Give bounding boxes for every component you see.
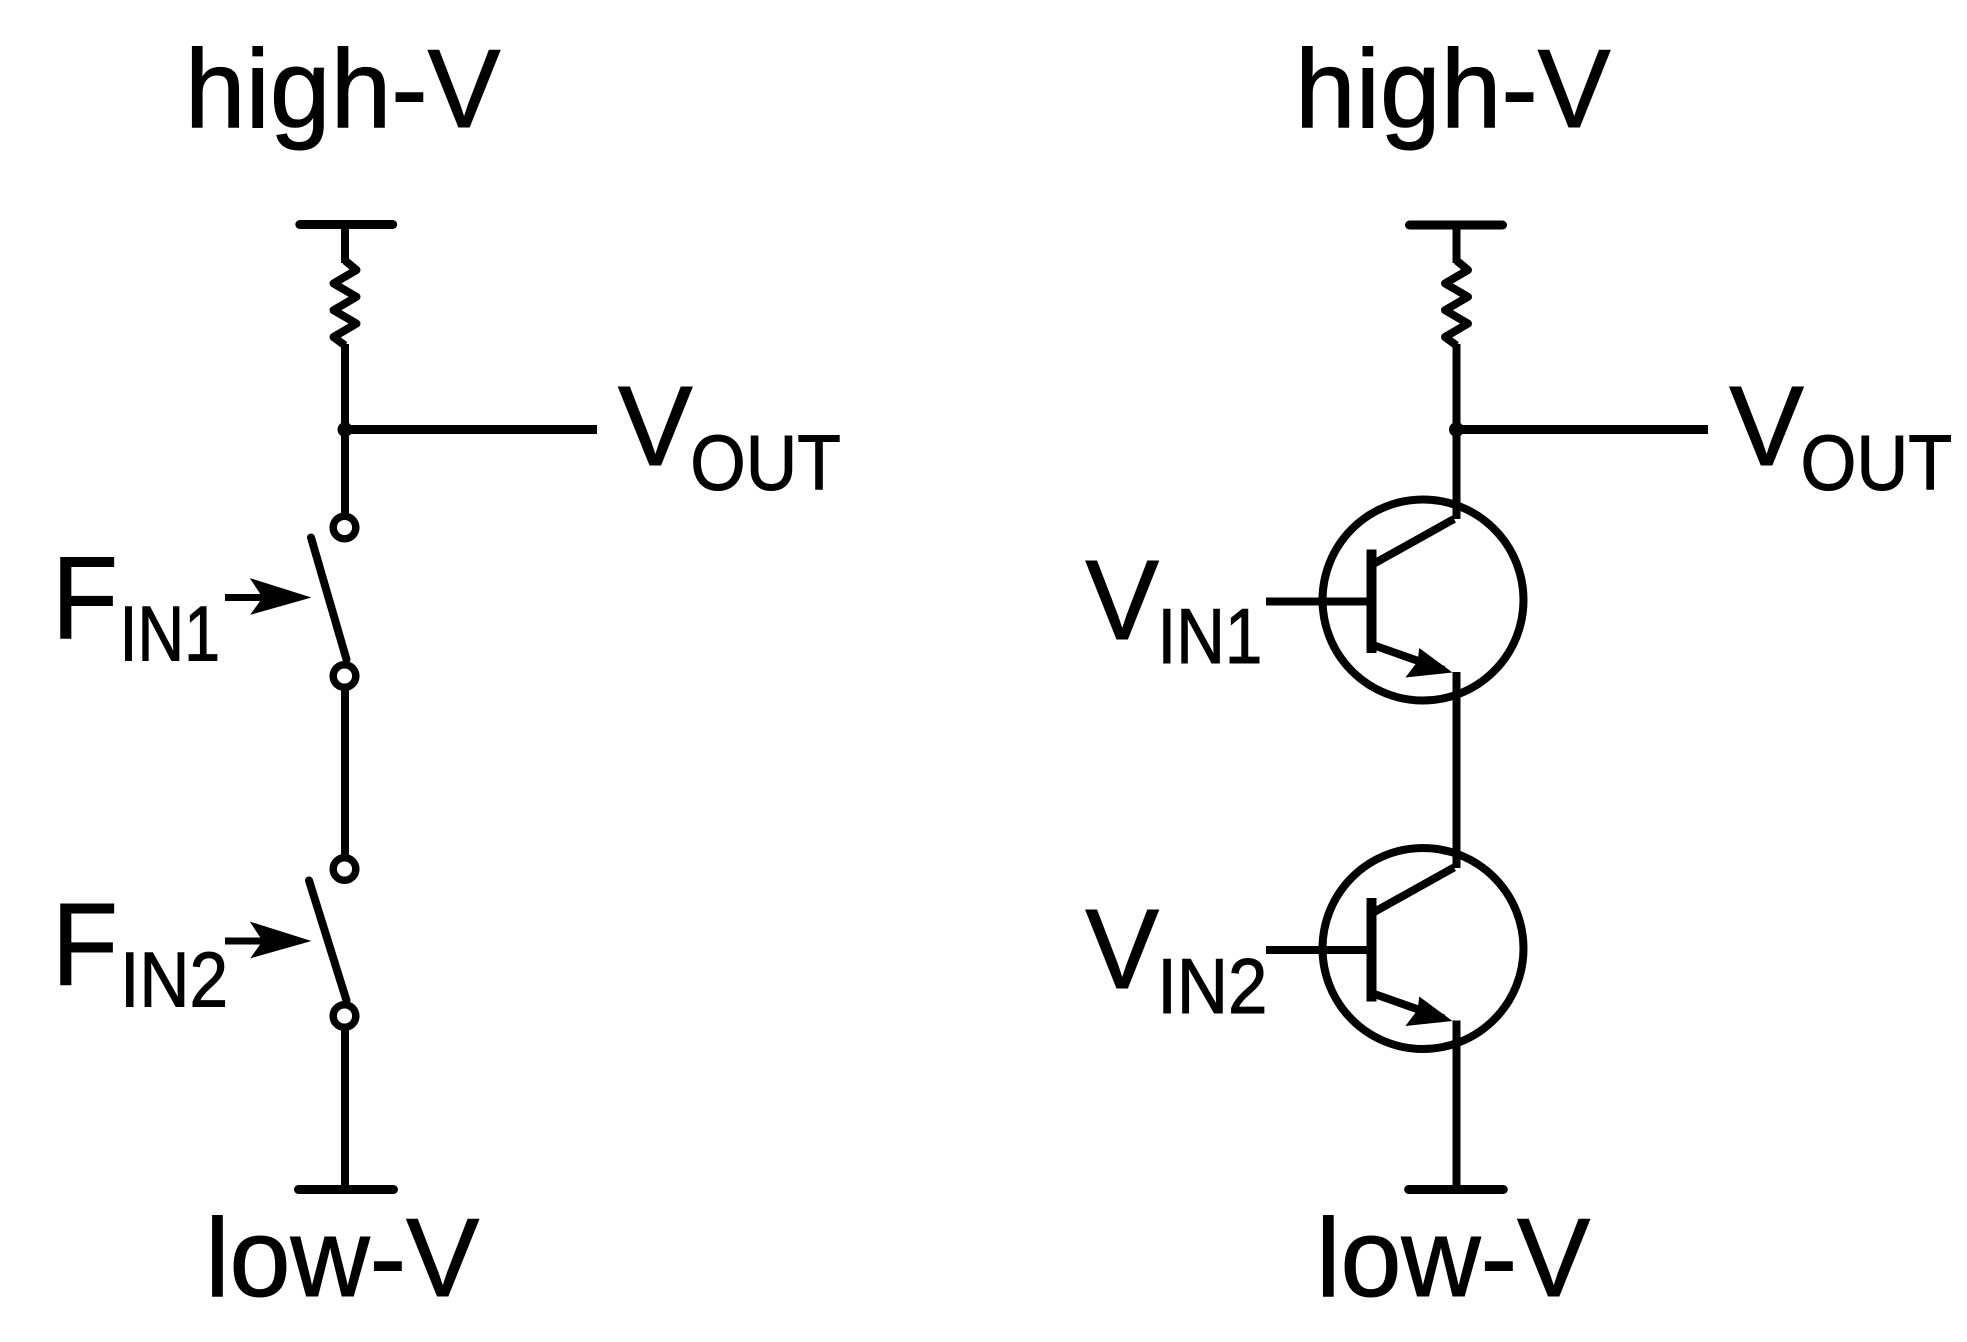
svg-text:V: V: [1085, 537, 1159, 663]
arrow F_IN2 to S2: [225, 922, 312, 959]
svg-text:IN2: IN2: [120, 935, 228, 1023]
switch S2: [309, 858, 356, 1028]
node V_OUT label (right): [1729, 363, 1952, 507]
transistor Q1: [1323, 500, 1524, 701]
wire to VOUT (right): [1457, 425, 1709, 434]
svg-text:F: F: [52, 879, 118, 1010]
svg-text:high-V: high-V: [1295, 27, 1611, 151]
node VOUT junction dot (right): [1449, 422, 1464, 437]
node VOUT junction dot (left): [338, 422, 353, 437]
wire V_IN1 to Q1 base: [1266, 598, 1372, 606]
svg-text:V: V: [618, 363, 693, 489]
svg-text:V: V: [1085, 886, 1159, 1012]
switch S1: [311, 516, 356, 687]
svg-text:IN1: IN1: [1158, 592, 1263, 680]
resistor R1: [334, 261, 357, 346]
resistor R2: [1445, 261, 1468, 346]
wire S1 to S2: [341, 689, 349, 856]
node V_OUT label (left): [618, 363, 841, 507]
svg-text:high-V: high-V: [185, 27, 501, 151]
power rail low-V (right): [1409, 1185, 1504, 1194]
wire Q2 emitter to low rail: [1453, 1021, 1461, 1193]
svg-text:IN2: IN2: [1157, 942, 1267, 1030]
power rail high-V (right): [1410, 221, 1503, 230]
wire resistor to switch S1 (left): [341, 344, 349, 514]
wire to VOUT (left): [345, 425, 597, 434]
node F_IN1 label: [52, 532, 220, 677]
svg-text:IN1: IN1: [120, 589, 221, 677]
wire resistor to Q1 collector: [1453, 344, 1461, 519]
svg-text:V: V: [1729, 363, 1804, 489]
power rail high-V (left): [300, 220, 393, 229]
wire V_IN2 to Q2 base: [1266, 946, 1372, 954]
svg-text:F: F: [52, 532, 118, 663]
node V_IN1 label: [1085, 537, 1262, 680]
svg-text:OUT: OUT: [1801, 419, 1953, 507]
svg-text:low-V: low-V: [205, 1196, 479, 1320]
transistor Q2: [1323, 848, 1524, 1049]
svg-text:OUT: OUT: [690, 419, 841, 507]
arrow F_IN1 to S1: [225, 578, 312, 615]
node F_IN2 label: [52, 879, 228, 1024]
node V_IN2 label: [1085, 886, 1267, 1030]
wire Q1 emitter to Q2 collector: [1453, 672, 1461, 868]
svg-text:low-V: low-V: [1316, 1196, 1590, 1320]
wire rail to resistor (left): [341, 225, 349, 264]
wire rail to resistor (right): [1453, 225, 1461, 263]
power rail low-V (left): [299, 1185, 394, 1194]
wire S2 to low rail: [341, 1031, 349, 1193]
